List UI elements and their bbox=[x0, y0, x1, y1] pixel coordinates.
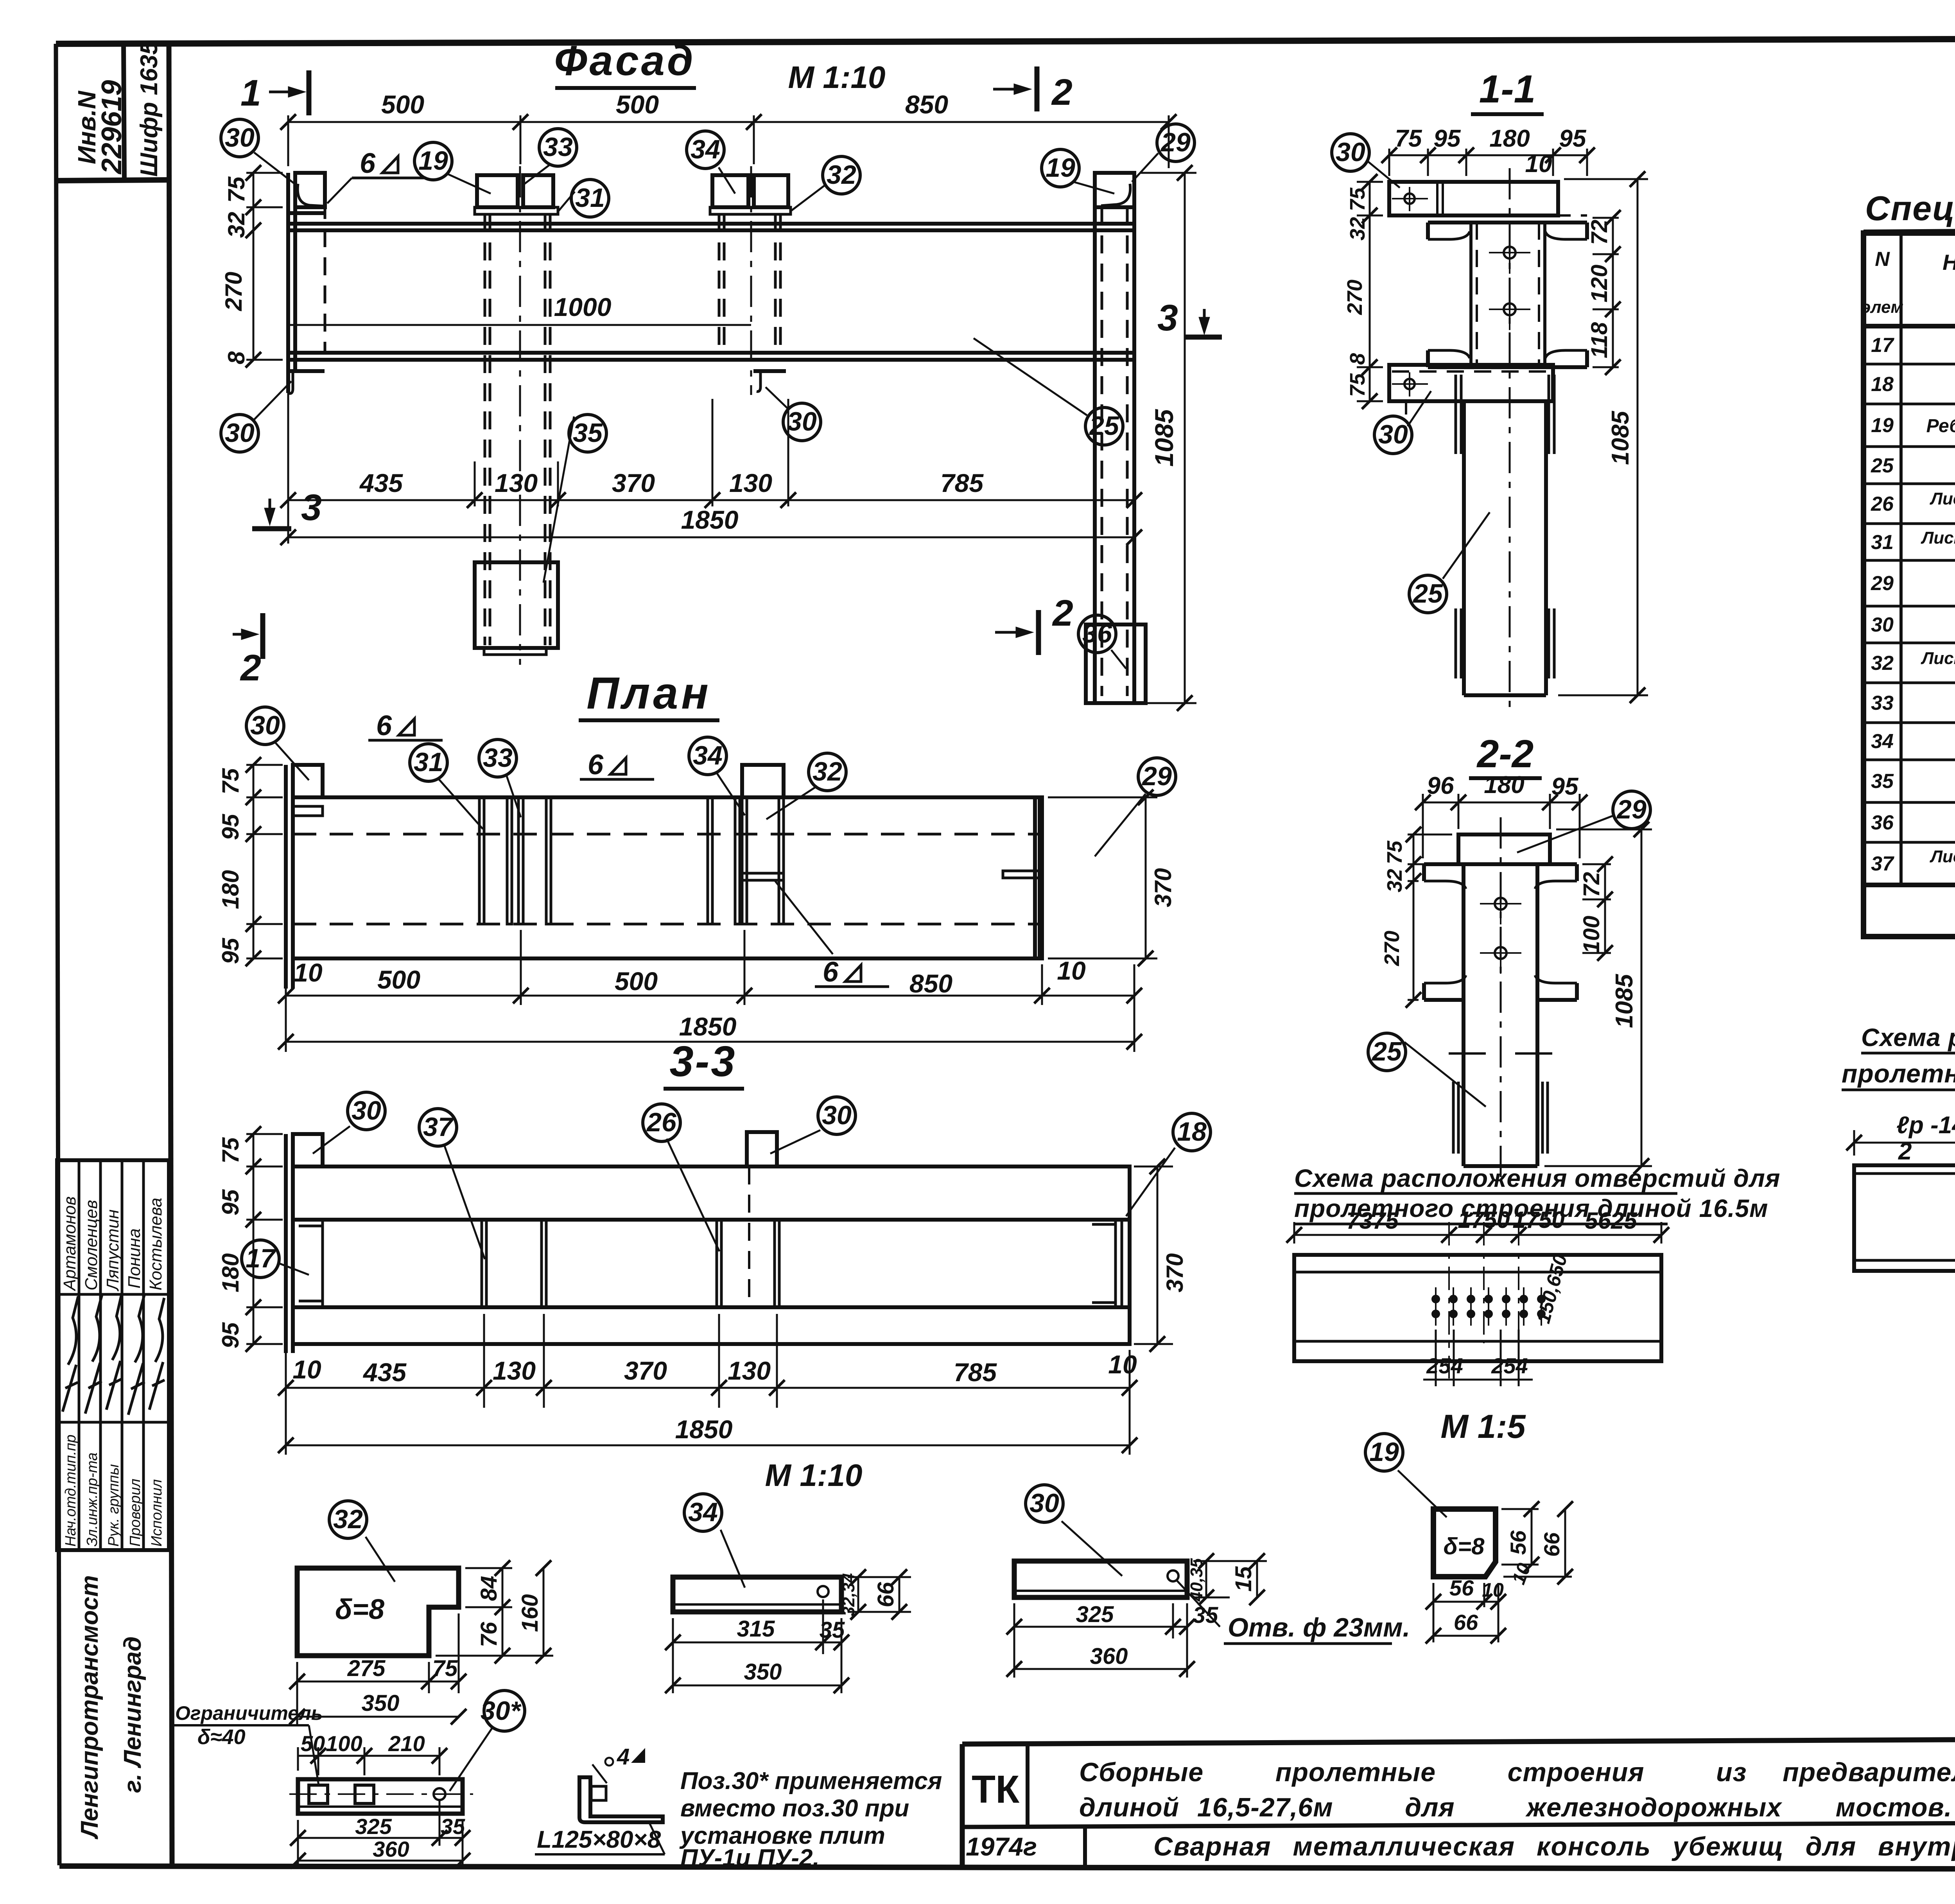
svg-text:66: 66 bbox=[1454, 1610, 1478, 1635]
svg-text:350: 350 bbox=[744, 1659, 782, 1685]
svg-text:500: 500 bbox=[381, 90, 424, 119]
svg-text:Лист Вертикальный: Лист Вертикальный bbox=[1930, 847, 1955, 866]
svg-text:1085: 1085 bbox=[1607, 411, 1634, 465]
svg-text:1850: 1850 bbox=[679, 1012, 737, 1041]
svg-text:500: 500 bbox=[615, 967, 658, 996]
svg-text:32: 32 bbox=[827, 160, 856, 190]
svg-text:Артамонов: Артамонов bbox=[60, 1196, 79, 1292]
svg-text:75: 75 bbox=[1346, 187, 1369, 211]
svg-text:33: 33 bbox=[1871, 692, 1894, 714]
svg-text:95: 95 bbox=[1559, 125, 1587, 152]
svg-text:850: 850 bbox=[909, 969, 952, 998]
svg-text:10: 10 bbox=[292, 1355, 321, 1384]
svg-text:Спецификация металла на од: Спецификация металла на одну консоль bbox=[1865, 189, 1955, 228]
svg-text:180: 180 bbox=[1484, 772, 1524, 799]
svg-text:Схема расположения отверстий д: Схема расположения отверстий для bbox=[1294, 1164, 1780, 1192]
svg-text:315: 315 bbox=[737, 1616, 775, 1642]
svg-text:254: 254 bbox=[1426, 1353, 1463, 1378]
svg-text:5625: 5625 bbox=[1585, 1208, 1638, 1234]
svg-text:1750: 1750 bbox=[1512, 1207, 1564, 1233]
svg-text:Понина: Понина bbox=[125, 1228, 144, 1288]
svg-text:32: 32 bbox=[812, 757, 842, 786]
svg-text:229619: 229619 bbox=[96, 80, 127, 175]
svg-text:180: 180 bbox=[217, 1253, 244, 1292]
svg-text:325: 325 bbox=[1076, 1602, 1114, 1627]
svg-text:ТК: ТК bbox=[972, 1768, 1020, 1811]
svg-text:100: 100 bbox=[1579, 916, 1604, 954]
svg-text:30: 30 bbox=[1030, 1488, 1059, 1518]
svg-text:36: 36 bbox=[1082, 619, 1112, 648]
svg-text:Фасад: Фасад bbox=[554, 37, 695, 84]
svg-text:35: 35 bbox=[1193, 1603, 1218, 1628]
svg-text:785: 785 bbox=[954, 1358, 997, 1387]
svg-text:δ≈40: δ≈40 bbox=[197, 1725, 246, 1749]
svg-text:4: 4 bbox=[617, 1744, 630, 1769]
svg-text:75: 75 bbox=[1346, 373, 1369, 397]
svg-text:Зл.инж.пр-та: Зл.инж.пр-та bbox=[84, 1452, 100, 1547]
svg-text:35: 35 bbox=[441, 1814, 465, 1839]
svg-text:6: 6 bbox=[376, 710, 392, 741]
svg-text:Ограничитель: Ограничитель bbox=[175, 1702, 323, 1724]
svg-text:30: 30 bbox=[1378, 420, 1408, 449]
svg-text:6: 6 bbox=[588, 749, 604, 781]
svg-text:Лист горизонтальный: Лист горизонтальный bbox=[1921, 528, 1955, 547]
svg-text:30*: 30* bbox=[481, 1696, 522, 1726]
svg-text:Наименование: Наименование bbox=[1942, 250, 1955, 275]
svg-text:Ленгипротрансмост: Ленгипротрансмост bbox=[76, 1575, 103, 1839]
svg-text:30: 30 bbox=[225, 418, 255, 448]
svg-text:32: 32 bbox=[1871, 652, 1894, 675]
svg-text:30: 30 bbox=[822, 1100, 852, 1130]
svg-text:270: 270 bbox=[1380, 931, 1404, 966]
svg-text:180: 180 bbox=[1489, 125, 1530, 152]
svg-text:План: План bbox=[586, 668, 712, 718]
svg-text:75: 75 bbox=[1395, 125, 1422, 152]
svg-text:6: 6 bbox=[360, 148, 376, 179]
svg-text:72: 72 bbox=[1587, 220, 1612, 245]
svg-text:31: 31 bbox=[1871, 531, 1894, 554]
svg-text:130: 130 bbox=[728, 1356, 771, 1385]
svg-text:130: 130 bbox=[495, 468, 538, 497]
svg-text:95: 95 bbox=[1434, 125, 1461, 152]
svg-text:95: 95 bbox=[1551, 773, 1579, 800]
svg-text:25: 25 bbox=[1871, 454, 1894, 477]
svg-text:35: 35 bbox=[573, 418, 603, 448]
svg-text:360: 360 bbox=[373, 1837, 409, 1861]
svg-text:17: 17 bbox=[1871, 334, 1894, 357]
svg-text:30: 30 bbox=[1336, 137, 1365, 167]
svg-text:2: 2 bbox=[1051, 72, 1073, 113]
svg-text:370: 370 bbox=[612, 468, 655, 497]
svg-text:56: 56 bbox=[1449, 1576, 1474, 1600]
svg-text:8: 8 bbox=[223, 351, 249, 364]
svg-text:100: 100 bbox=[326, 1731, 362, 1756]
svg-text:15: 15 bbox=[1231, 1566, 1256, 1592]
svg-text:36: 36 bbox=[1871, 811, 1894, 834]
svg-text:30: 30 bbox=[1871, 614, 1894, 636]
svg-text:3: 3 bbox=[1157, 297, 1178, 339]
svg-text:37: 37 bbox=[1871, 852, 1894, 875]
svg-text:96: 96 bbox=[1427, 772, 1454, 799]
svg-text:75: 75 bbox=[432, 1656, 458, 1681]
svg-text:500: 500 bbox=[616, 90, 659, 119]
svg-text:32: 32 bbox=[1383, 869, 1406, 892]
svg-text:Схема расположения отверстий д: Схема расположения отверстий для bbox=[1861, 1023, 1955, 1052]
svg-text:29: 29 bbox=[1160, 127, 1191, 157]
svg-text:370: 370 bbox=[1150, 868, 1176, 907]
svg-text:66: 66 bbox=[1539, 1532, 1564, 1557]
svg-text:N: N bbox=[1875, 248, 1890, 271]
svg-text:30: 30 bbox=[225, 123, 255, 153]
svg-text:95: 95 bbox=[217, 813, 244, 840]
svg-text:18: 18 bbox=[1871, 373, 1894, 396]
svg-text:435: 435 bbox=[362, 1358, 407, 1387]
svg-text:37: 37 bbox=[423, 1112, 454, 1142]
svg-text:1974г: 1974г bbox=[966, 1832, 1037, 1861]
svg-text:δ=8: δ=8 bbox=[1443, 1533, 1485, 1559]
svg-text:30: 30 bbox=[787, 407, 817, 436]
svg-text:32: 32 bbox=[1346, 217, 1369, 240]
svg-text:75: 75 bbox=[223, 176, 249, 203]
svg-text:1-1: 1-1 bbox=[1479, 67, 1536, 111]
svg-text:25: 25 bbox=[1089, 411, 1119, 441]
svg-text:95: 95 bbox=[217, 937, 244, 964]
svg-text:2-2: 2-2 bbox=[1476, 732, 1534, 776]
svg-text:370: 370 bbox=[1162, 1253, 1188, 1292]
svg-text:1085: 1085 bbox=[1150, 409, 1178, 467]
svg-text:1: 1 bbox=[240, 72, 261, 114]
svg-text:ℓр -1450(1750): ℓр -1450(1750) bbox=[1896, 1112, 1955, 1139]
svg-text:35: 35 bbox=[1871, 770, 1894, 793]
svg-text:120: 120 bbox=[1587, 265, 1612, 303]
svg-text:Нач.отд.тип.пр: Нач.отд.тип.пр bbox=[63, 1435, 79, 1547]
svg-text:19: 19 bbox=[1369, 1437, 1399, 1467]
svg-text:35: 35 bbox=[820, 1617, 845, 1643]
svg-text:40,35: 40,35 bbox=[1187, 1558, 1206, 1602]
svg-text:7375: 7375 bbox=[1346, 1208, 1399, 1234]
svg-text:Проверил: Проверил bbox=[127, 1479, 143, 1547]
svg-text:М 1:10: М 1:10 bbox=[765, 1458, 863, 1493]
svg-text:84: 84 bbox=[476, 1576, 502, 1601]
svg-text:26: 26 bbox=[646, 1107, 677, 1137]
svg-text:29: 29 bbox=[1871, 572, 1894, 595]
svg-text:26: 26 bbox=[1871, 493, 1894, 515]
svg-text:130: 130 bbox=[729, 468, 772, 497]
svg-text:270: 270 bbox=[1343, 280, 1367, 315]
svg-text:Поз.30* применяется: Поз.30* применяется bbox=[680, 1768, 942, 1795]
svg-text:17: 17 bbox=[246, 1244, 276, 1273]
svg-text:вместо поз.30 при: вместо поз.30 при bbox=[680, 1795, 909, 1822]
svg-text:75: 75 bbox=[1383, 840, 1406, 864]
svg-text:31: 31 bbox=[414, 747, 443, 777]
svg-text:785: 785 bbox=[940, 468, 984, 497]
svg-text:М 1:5: М 1:5 bbox=[1440, 1408, 1526, 1445]
svg-text:Рук. группы: Рук. группы bbox=[106, 1464, 122, 1547]
svg-text:10: 10 bbox=[1525, 151, 1552, 178]
svg-text:19: 19 bbox=[418, 146, 448, 176]
svg-text:10: 10 bbox=[1057, 956, 1086, 985]
svg-text:150,650: 150,650 bbox=[1532, 1252, 1571, 1326]
svg-text:Ляпустин: Ляпустин bbox=[103, 1210, 122, 1292]
svg-text:66: 66 bbox=[873, 1582, 899, 1607]
svg-text:г. Ленинград: г. Ленинград bbox=[119, 1637, 146, 1793]
svg-text:ПУ-1и ПУ-2.: ПУ-1и ПУ-2. bbox=[680, 1845, 820, 1872]
svg-text:L125×80×8: L125×80×8 bbox=[537, 1826, 661, 1853]
svg-text:210: 210 bbox=[388, 1731, 425, 1756]
svg-text:34: 34 bbox=[693, 741, 723, 770]
svg-text:30: 30 bbox=[352, 1096, 381, 1125]
svg-text:Лист Вертикальный: Лист Вертикальный bbox=[1930, 489, 1955, 508]
svg-text:95: 95 bbox=[217, 1322, 244, 1348]
svg-text:95: 95 bbox=[217, 1189, 244, 1215]
svg-text:32: 32 bbox=[333, 1504, 363, 1534]
svg-text:29: 29 bbox=[1141, 761, 1172, 791]
svg-text:30: 30 bbox=[250, 711, 280, 740]
svg-text:10: 10 bbox=[1108, 1350, 1137, 1379]
svg-text:2: 2 bbox=[1052, 592, 1073, 634]
svg-text:10: 10 bbox=[1482, 1579, 1504, 1601]
svg-text:76: 76 bbox=[476, 1622, 502, 1647]
svg-text:8: 8 bbox=[1346, 353, 1369, 365]
svg-text:50: 50 bbox=[301, 1731, 325, 1756]
svg-text:56: 56 bbox=[1506, 1530, 1530, 1555]
svg-text:19: 19 bbox=[1046, 153, 1075, 183]
svg-text:350: 350 bbox=[362, 1690, 400, 1716]
svg-text:29: 29 bbox=[1616, 795, 1647, 824]
svg-text:75: 75 bbox=[217, 768, 244, 794]
svg-text:435: 435 bbox=[359, 468, 403, 497]
svg-text:длиной 16,5-27,6м для же: длиной 16,5-27,6м для железнодорожных мо… bbox=[1079, 1793, 1955, 1822]
svg-text:Отв. ф 23мм.: Отв. ф 23мм. bbox=[1228, 1613, 1410, 1642]
svg-text:6: 6 bbox=[823, 956, 839, 988]
svg-text:1850: 1850 bbox=[675, 1415, 733, 1444]
svg-text:33: 33 bbox=[543, 132, 573, 162]
svg-text:1000: 1000 bbox=[554, 293, 612, 321]
svg-text:270: 270 bbox=[221, 272, 247, 311]
svg-text:32: 32 bbox=[223, 212, 249, 238]
svg-text:элем: элем bbox=[1861, 298, 1903, 317]
svg-text:254: 254 bbox=[1491, 1353, 1528, 1378]
svg-text:325: 325 bbox=[355, 1814, 392, 1839]
svg-text:25: 25 bbox=[1412, 579, 1443, 608]
svg-text:10: 10 bbox=[294, 958, 323, 987]
svg-text:75: 75 bbox=[217, 1137, 244, 1163]
svg-text:34: 34 bbox=[688, 1497, 718, 1527]
svg-text:3: 3 bbox=[301, 487, 322, 528]
svg-text:2: 2 bbox=[240, 647, 261, 689]
svg-text:25: 25 bbox=[1371, 1037, 1402, 1066]
svg-text:31: 31 bbox=[575, 183, 605, 213]
svg-text:180: 180 bbox=[217, 870, 244, 909]
svg-text:Шифр 1635: Шифр 1635 bbox=[136, 41, 163, 177]
svg-text:3-3: 3-3 bbox=[670, 1037, 737, 1086]
svg-text:160: 160 bbox=[517, 1594, 543, 1632]
svg-text:Костылева: Костылева bbox=[146, 1198, 165, 1290]
svg-text:Сборные пролетные строен: Сборные пролетные строения из предварите… bbox=[1079, 1757, 1955, 1787]
svg-text:370: 370 bbox=[624, 1356, 667, 1385]
svg-text:Сварная металлическая консоль: Сварная металлическая консоль убежищ для… bbox=[1153, 1832, 1955, 1861]
svg-text:Лист горизонтальный: Лист горизонтальный bbox=[1921, 649, 1955, 668]
svg-text:850: 850 bbox=[905, 90, 948, 119]
svg-text:32,34: 32,34 bbox=[839, 1573, 858, 1616]
svg-text:33: 33 bbox=[483, 743, 513, 773]
svg-text:пролетных строений длиной 18,7: пролетных строений длиной 18,7м; 23,6м; … bbox=[1842, 1059, 1955, 1088]
svg-text:1085: 1085 bbox=[1611, 974, 1638, 1028]
svg-text:М 1:10: М 1:10 bbox=[788, 60, 886, 95]
svg-text:Ребро ГОСТ 5681-57*: Ребро ГОСТ 5681-57* bbox=[1926, 416, 1955, 436]
svg-text:275: 275 bbox=[347, 1656, 386, 1681]
svg-text:34: 34 bbox=[691, 135, 720, 164]
svg-text:Исполнил: Исполнил bbox=[149, 1479, 165, 1547]
svg-text:130: 130 bbox=[493, 1356, 536, 1385]
svg-text:Смоленцев: Смоленцев bbox=[82, 1200, 101, 1290]
svg-text:18: 18 bbox=[1177, 1117, 1207, 1147]
svg-text:118: 118 bbox=[1587, 322, 1612, 358]
svg-text:72: 72 bbox=[1579, 872, 1604, 897]
svg-text:1850: 1850 bbox=[681, 505, 739, 534]
svg-text:500: 500 bbox=[377, 965, 420, 994]
svg-text:34: 34 bbox=[1871, 730, 1894, 753]
svg-text:360: 360 bbox=[1090, 1644, 1128, 1669]
svg-text:19: 19 bbox=[1871, 414, 1894, 437]
svg-text:δ=8: δ=8 bbox=[335, 1594, 384, 1625]
